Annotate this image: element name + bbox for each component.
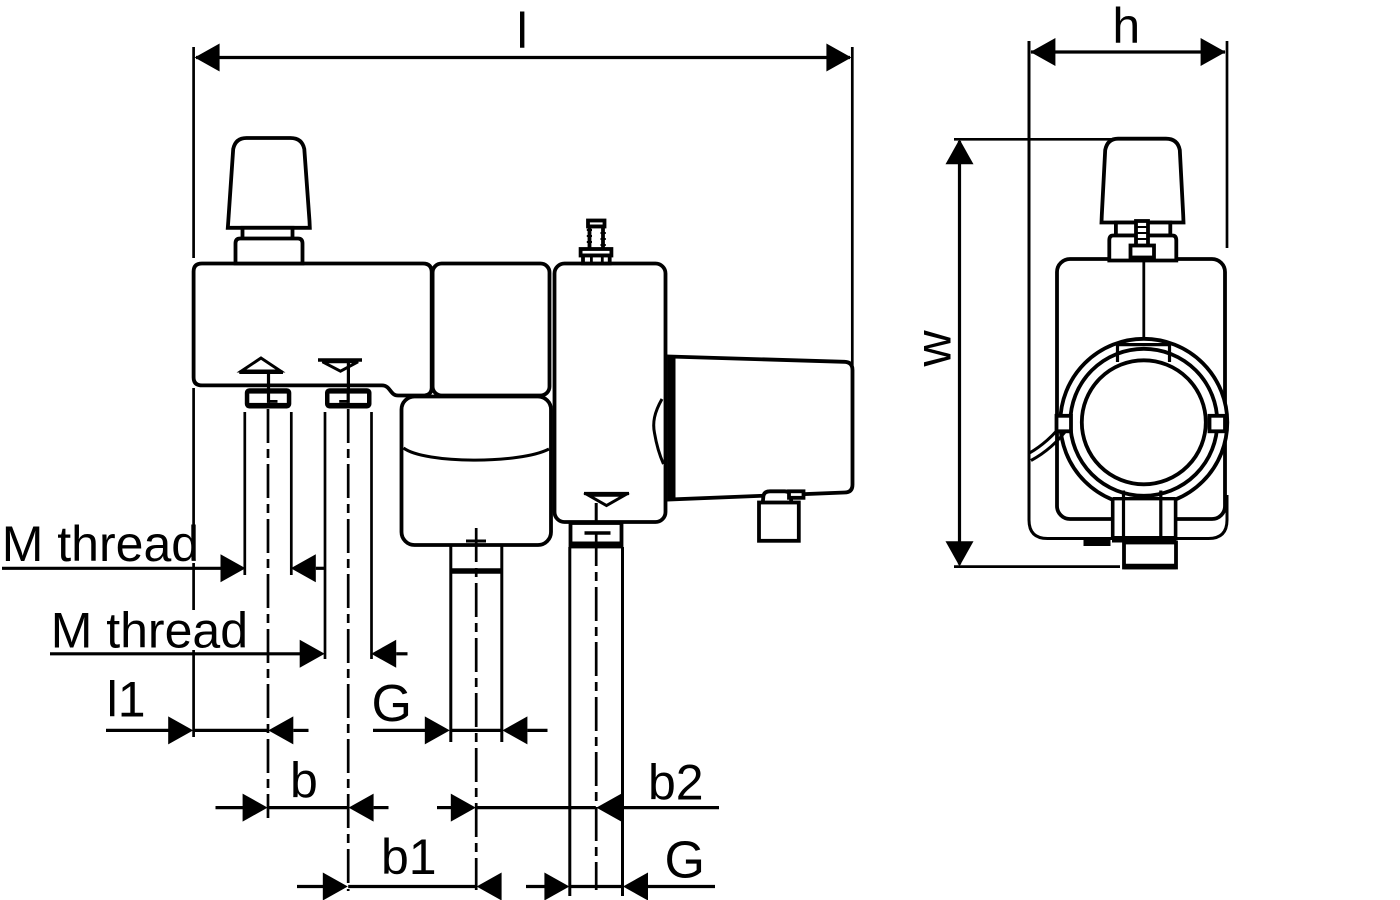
dimension l right arrowhead	[826, 44, 851, 72]
M thread 2 right outside arrow	[371, 640, 396, 668]
nipple thread crests	[587, 229, 592, 231]
centerline port 2	[347, 409, 350, 891]
fitting tab	[789, 491, 804, 498]
centerline port 1	[267, 409, 270, 818]
bowl shoulder curve	[404, 448, 550, 460]
b dimension	[216, 806, 244, 809]
left valve body	[194, 264, 432, 396]
pipe 1 left wall	[449, 545, 452, 742]
port 2 nut	[325, 388, 372, 408]
flow symbol 1 (up arrow above port 1)	[242, 358, 281, 371]
dimension l left arrowhead	[195, 44, 220, 72]
left clamp tab	[1057, 416, 1072, 432]
b1 dimension	[297, 885, 323, 888]
knob dome (end view)	[1102, 139, 1184, 223]
port 1 nut	[245, 388, 291, 408]
h right extension line	[1226, 41, 1229, 248]
port 1 centerline stem and tick	[267, 390, 270, 403]
svg-text:b: b	[290, 753, 318, 809]
svg-text:M thread: M thread	[2, 516, 199, 572]
strap curves lower-left	[1030, 421, 1065, 453]
svg-text:G: G	[372, 675, 412, 733]
fitting hump under cylinder	[763, 491, 792, 502]
M thread 2 leader line	[50, 652, 301, 655]
svg-text:G: G	[665, 832, 705, 890]
plate foot bar	[1084, 539, 1111, 546]
svg-text:M thread: M thread	[51, 603, 248, 659]
stem nut (end view)	[1131, 246, 1155, 258]
ring top clamp	[1117, 343, 1170, 346]
dimension l line	[196, 56, 850, 59]
extension line left for l	[192, 47, 195, 258]
knob dome (side view)	[228, 138, 310, 228]
bottom fitting (end view)	[1113, 499, 1176, 539]
middle ring circle	[1070, 349, 1217, 496]
port 2 centerline stem and tick	[347, 390, 350, 403]
flow symbol 2 (down arrow above port 2)	[318, 358, 362, 361]
svg-text:l: l	[517, 3, 528, 59]
svg-text:l1: l1	[107, 672, 146, 728]
port 3 center tick	[585, 531, 611, 535]
dimension h	[1031, 50, 1225, 53]
nipple base hex	[583, 256, 610, 264]
G1 dimension	[373, 729, 426, 732]
dimension w	[958, 141, 961, 565]
fitting square	[759, 503, 799, 541]
svg-text:b2: b2	[648, 754, 704, 810]
extension lines port 2 edges	[324, 412, 327, 659]
knob collar (end view)	[1109, 236, 1176, 261]
right clamp tab	[1210, 416, 1226, 432]
pipe 1 right wall	[500, 545, 503, 742]
middle box	[433, 264, 550, 396]
nipple thread stem	[590, 227, 604, 250]
G2 dimension	[526, 885, 545, 888]
pipe 1 center tick	[466, 540, 486, 543]
w top extension line	[954, 138, 1165, 141]
outer ring circle	[1060, 339, 1227, 506]
port 3 under right box	[571, 523, 622, 547]
threaded stem (end view)	[1136, 221, 1148, 248]
svg-text:b1: b1	[381, 829, 437, 885]
cylinder left end band	[669, 357, 676, 501]
stem centerline	[1142, 258, 1145, 346]
right box	[555, 264, 666, 523]
centerline pipe 1	[475, 528, 478, 890]
extension line from body left edge	[192, 388, 195, 525]
end view body	[1057, 259, 1225, 519]
b2 dimension	[437, 806, 451, 809]
svg-text:h: h	[1112, 0, 1140, 54]
extension line right for l	[851, 47, 854, 365]
w bottom extension line	[954, 565, 1120, 568]
nipple cap	[588, 221, 605, 227]
centerline pipe 2	[595, 532, 598, 890]
inner bore circle	[1082, 360, 1206, 484]
pipe 2 right wall	[621, 547, 624, 896]
flow symbol 3 (down arrow above port 3)	[584, 492, 629, 495]
l1 dimension	[106, 729, 169, 732]
pipe 2 left wall	[568, 547, 571, 896]
knob collar (side view)	[236, 239, 303, 264]
mounting plate outline with h extension edges	[1029, 41, 1227, 539]
M thread 1 right outside arrow	[291, 554, 316, 582]
knob neck (side view)	[243, 228, 293, 239]
extension lines port 1 edges	[243, 412, 246, 575]
right box inner curve	[654, 399, 664, 464]
pipe 1 joint bar	[450, 568, 504, 574]
nipple base flange	[581, 249, 612, 256]
svg-text:w: w	[906, 330, 962, 368]
knob neck (end view)	[1116, 223, 1170, 236]
bowl (filter cup)	[402, 397, 552, 546]
cylinder (actuator, right)	[669, 357, 853, 500]
M thread 1 leader line	[2, 567, 222, 570]
lower fitting (end view)	[1124, 543, 1176, 568]
